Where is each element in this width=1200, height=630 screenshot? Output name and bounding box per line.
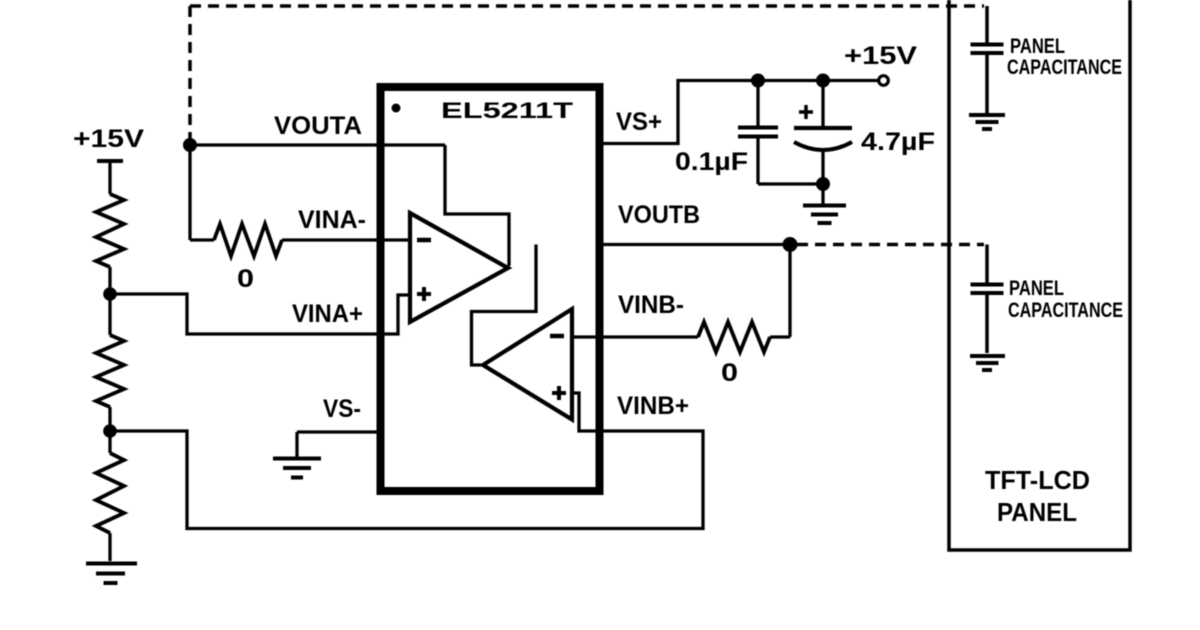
capacitor C2 4.7uF (821, 80, 824, 126)
ground (panel capacitance 1) (969, 115, 1005, 129)
svg-text:0: 0 (721, 359, 738, 387)
wire: dashed feedback VOUTA vertical (188, 6, 192, 140)
resistor R1 (divider top) (96, 194, 124, 267)
svg-text:+15V: +15V (844, 42, 917, 70)
resistor RA 0 ohm feedback (214, 224, 282, 256)
svg-text:0: 0 (237, 265, 254, 293)
ground (panel capacitance 2) (970, 356, 1005, 370)
node: rail junction dot at 0.1uF (751, 74, 765, 88)
svg-text:VINB+: VINB+ (617, 392, 689, 420)
wire (295, 432, 298, 458)
svg-text:VINA+: VINA+ (292, 300, 363, 328)
svg-text:CAPACITANCE: CAPACITANCE (1007, 56, 1122, 79)
capacitor C2 4.7uF polarity plus sign (799, 105, 813, 119)
svg-text:VINB-: VINB- (618, 291, 684, 319)
wire: dashed feedback top horizontal (190, 4, 984, 8)
svg-text:VOUTB: VOUTB (618, 201, 700, 229)
node: rail junction dot at 4.7uF (816, 74, 830, 88)
svg-text:VS-: VS- (323, 395, 361, 423)
op-amp B minus input sign (550, 334, 564, 339)
ground (supply capacitors) (803, 206, 846, 224)
wire VS- to ground (297, 430, 381, 433)
node divider-2 junction dot (103, 424, 117, 438)
panel capacitance 1 (top) (985, 6, 989, 43)
wire (770, 335, 790, 338)
wire (190, 238, 214, 241)
power terminal +15V open circle (879, 76, 889, 86)
pin-1 dot of U1 (392, 104, 401, 113)
wire VINB- to U1 (572, 335, 698, 338)
svg-text:VOUTA: VOUTA (274, 112, 362, 140)
wire VINB+ internal jog (572, 393, 599, 431)
wire VOUTB internal step to op-amp B output (472, 245, 537, 366)
op-amp A triangle (410, 213, 508, 322)
wire VINA- to U1 (282, 238, 410, 241)
power terminal +15V left T-bar (97, 159, 123, 163)
svg-text:0.1µF: 0.1µF (675, 148, 748, 176)
wire (108, 533, 111, 561)
svg-text:VS+: VS+ (616, 108, 662, 136)
node B: VOUTB junction dot (783, 237, 798, 252)
svg-text:PANEL: PANEL (997, 497, 1077, 527)
op-amp U1 EL5211T package outline (381, 87, 600, 491)
resistor R2 (divider middle) (96, 335, 124, 407)
op-amp B triangle (483, 309, 572, 420)
TFT-LCD panel box (949, 0, 1130, 550)
svg-text:CAPACITANCE: CAPACITANCE (1008, 299, 1123, 322)
ground (divider bottom) (86, 564, 137, 584)
wire VINB+ route from divider node-2 under U1 (110, 431, 703, 529)
op-amp A minus input sign (417, 238, 431, 243)
ground (VS- pin) (273, 459, 321, 478)
svg-text:+15V: +15V (73, 125, 144, 153)
capacitor C1 0.1uF (756, 80, 759, 126)
svg-text:VINA-: VINA- (298, 206, 366, 234)
svg-text:4.7µF: 4.7µF (861, 128, 935, 156)
panel capacitance 2 (middle) (985, 245, 989, 284)
node A: VOUTA junction dot (183, 138, 197, 152)
wire VS+ to +15V rail (599, 81, 878, 144)
op-amp B plus input sign (552, 386, 566, 400)
wire VOUTA internal step to op-amp A output (445, 145, 509, 266)
svg-text:PANEL: PANEL (1009, 277, 1064, 300)
node divider-1 junction dot (103, 287, 117, 301)
wire VOUTA to U1 (190, 143, 445, 146)
resistor R3 (divider bottom) (96, 453, 124, 533)
wire VOUTB down to feedback resistor (788, 245, 791, 338)
svg-text:EL5211T: EL5211T (441, 98, 574, 123)
wire VOUTB from U1 (599, 243, 790, 246)
wire VINA+ from divider node-1 (110, 294, 410, 334)
wire (108, 161, 111, 194)
wire VOUTA down to feedback resistor (188, 145, 191, 240)
node: capacitor ground junction dot (816, 177, 830, 191)
svg-text:TFT-LCD: TFT-LCD (985, 465, 1090, 495)
wire: dashed VOUTB to panel capacitance (797, 243, 984, 247)
op-amp A plus input sign (417, 287, 431, 301)
wire C1 bottom to C2 bottom (758, 182, 823, 185)
wire (108, 407, 111, 453)
resistor RB 0 ohm feedback (698, 322, 770, 352)
wire (108, 267, 111, 335)
svg-text:PANEL: PANEL (1010, 35, 1065, 58)
